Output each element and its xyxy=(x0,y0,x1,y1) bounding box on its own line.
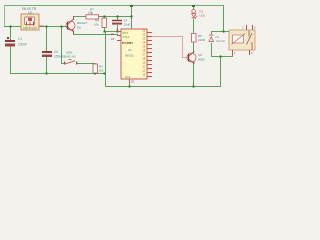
svg-text:10k: 10k xyxy=(88,11,94,15)
svg-text:LED: LED xyxy=(200,14,205,18)
svg-text:220R: 220R xyxy=(198,38,206,42)
svg-text:XTL1: XTL1 xyxy=(123,35,130,39)
wire: relay/diode top wire y31 xyxy=(211,31,232,32)
svg-text:10uF: 10uF xyxy=(124,23,131,27)
svg-text:100uF: 100uF xyxy=(18,43,27,47)
wire: C2 vertical x46 lower xyxy=(46,57,47,73)
regulator U2 78L05 body xyxy=(21,14,39,30)
wire: MCU ground drop x129 xyxy=(129,83,130,86)
wire: collector net y16 xyxy=(73,16,132,17)
node: dot 193,86 xyxy=(193,86,195,88)
wire: coil return wire y56 xyxy=(211,56,233,57)
MCU right pin numbers xyxy=(143,30,146,77)
svg-text:RESET: RESET xyxy=(77,21,87,25)
svg-text:U1: U1 xyxy=(128,48,132,52)
svg-text:10k: 10k xyxy=(99,69,104,73)
transistor Q1 xyxy=(66,20,75,32)
svg-text:19: 19 xyxy=(111,32,115,36)
node: dot 104,31 xyxy=(104,31,106,33)
svg-text:C2: C2 xyxy=(54,50,58,54)
wire: Q1 collector riser xyxy=(73,16,74,20)
wire: top VCC rail xyxy=(4,5,223,6)
wire: diode bottom to y56 xyxy=(211,43,212,56)
wire: C4 riser x117 xyxy=(117,16,118,20)
capacitor C2 xyxy=(42,51,52,57)
node: dot 46,26 xyxy=(46,26,48,28)
node: rail dot x193 xyxy=(192,5,195,7)
svg-text:A5: A5 xyxy=(77,26,81,30)
wire: LED anode stub xyxy=(193,5,194,10)
node: dot 117,31 xyxy=(117,31,119,33)
node: dot 223,31 xyxy=(223,31,225,33)
node: rail dot x131 xyxy=(130,5,133,7)
node: dot 220,56 xyxy=(220,56,222,58)
MCU left pin stubs xyxy=(117,31,130,83)
svg-text:D2: D2 xyxy=(216,35,220,39)
LED D1 xyxy=(192,9,198,18)
node: dot 95,73 xyxy=(94,73,96,75)
wire: coil bottom stub x232 xyxy=(232,54,233,57)
wire: C4 drop x117 xyxy=(117,25,118,31)
svg-text:1N4148: 1N4148 xyxy=(216,39,226,43)
regulator U2 output pin stub xyxy=(39,26,44,27)
svg-text:P3.2INT: P3.2INT xyxy=(122,41,133,45)
svg-text:U2: U2 xyxy=(28,11,32,15)
wire: LED to R2 x193 xyxy=(193,19,194,33)
svg-text:SB-MC-AG: SB-MC-AG xyxy=(62,55,76,59)
wire: relay return vertical x220 xyxy=(220,56,221,86)
node: dot 129,86 xyxy=(129,86,131,88)
node: dot 46,73 xyxy=(46,73,48,75)
switch SW1 xyxy=(64,60,77,65)
wire: Q1 emitter drop xyxy=(73,31,74,34)
wire: C1 vertical x10 lower xyxy=(10,46,11,74)
resistor R3 xyxy=(93,64,98,73)
pink wire: vertical x182 xyxy=(182,36,183,57)
node: dot 104,73 xyxy=(104,73,106,75)
wire: RST wire y31 xyxy=(104,31,117,32)
pink wire: MCU pin to Q2 base horizontal xyxy=(152,36,183,37)
wire: diode top stub x211 xyxy=(211,31,212,34)
pink wire: into base xyxy=(182,57,188,58)
resistor R2 xyxy=(192,34,197,43)
svg-text:GND IN OUT: GND IN OUT xyxy=(23,27,38,30)
diode D2 xyxy=(209,35,214,42)
wire: Q2 emitter drop x193 xyxy=(193,62,194,86)
MCU right pin stubs xyxy=(147,32,152,77)
capacitor C4 xyxy=(112,20,122,25)
svg-text:Gnd: Gnd xyxy=(125,75,131,79)
wire: R2 to Q2 collector x193 xyxy=(193,42,194,53)
wire: ground rail left y73 xyxy=(10,73,105,74)
wire: switch left lead y63 xyxy=(61,63,64,64)
capacitor C1 xyxy=(5,37,15,47)
svg-text:18: 18 xyxy=(111,37,115,41)
wire: C2 vertical x46 upper xyxy=(46,26,47,51)
wire: left vertical drop xyxy=(4,5,5,26)
node: dot 104,16 xyxy=(104,16,106,18)
MCU U1 89C51 body xyxy=(121,29,147,79)
relay RL1 body xyxy=(229,30,255,50)
wire: ground rail right y86 xyxy=(105,86,221,87)
svg-text:8050: 8050 xyxy=(198,58,205,62)
svg-text:Q2: Q2 xyxy=(198,53,202,57)
wire: emitter wire y35 to MCU xyxy=(73,34,118,35)
node: dot 10,26 xyxy=(10,26,12,28)
wire: switch right lead to R3 and x104 xyxy=(77,63,95,64)
wire: switch net vertical x61 xyxy=(61,26,62,63)
relay pin stubs xyxy=(232,25,253,55)
node: dot 117,16 xyxy=(117,16,119,18)
wire: left horizontal into node xyxy=(4,26,21,27)
wire: VCC drop x131 to MCU xyxy=(131,5,132,29)
transistor Q2 xyxy=(187,52,196,64)
svg-text:10k: 10k xyxy=(94,23,99,27)
wire: long vertical x104 RST/R3 net xyxy=(104,27,105,31)
wire: C1 vertical x10 upper xyxy=(10,26,11,40)
wire: +5V rail y26 from regulator to Q1 base xyxy=(40,26,67,27)
node: dot 131,16 xyxy=(131,16,133,18)
resistor R4 xyxy=(102,18,107,28)
svg-text:C1: C1 xyxy=(18,37,22,41)
svg-text:89C51: 89C51 xyxy=(125,54,134,58)
wire: relay VCC drop x223 xyxy=(223,5,224,31)
node: dot 61,26 xyxy=(61,26,63,28)
svg-text:20: 20 xyxy=(131,80,135,84)
resistor R7 xyxy=(86,15,99,19)
wire: R3 top stub xyxy=(95,63,96,65)
